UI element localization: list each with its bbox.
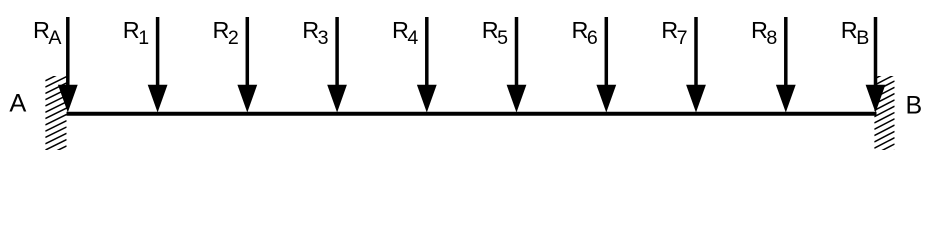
svg-text:B: B	[906, 91, 923, 119]
svg-text:A: A	[9, 90, 26, 118]
